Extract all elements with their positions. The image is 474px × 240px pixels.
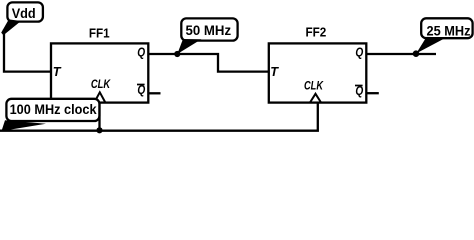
callout 25 MHz bubble <box>421 18 472 38</box>
svg-text:FF1: FF1 <box>89 25 110 40</box>
svg-text:FF2: FF2 <box>306 25 327 40</box>
svg-text:100 MHz clock: 100 MHz clock <box>10 101 97 117</box>
wire FF1 CLK drop to clock line <box>98 103 100 131</box>
callout 50 MHz tail <box>177 39 201 54</box>
svg-text:Q: Q <box>137 45 145 59</box>
svg-text:50 MHz: 50 MHz <box>186 22 232 38</box>
callout 100 MHz clock bubble <box>6 99 99 121</box>
wire 100 MHz clock line with riser to FF2 CLK <box>0 103 318 131</box>
wire FF1 Q-bar stub <box>148 92 160 94</box>
clock edge triangle (FF2) <box>310 94 321 103</box>
wire FF2 Q-bar stub <box>366 92 379 94</box>
wire FF2 Q output <box>366 53 436 55</box>
node clock junction dot at FF1 <box>96 127 102 133</box>
svg-text:Vdd: Vdd <box>12 6 36 21</box>
wire FF1 Q output to FF2 T input <box>148 54 268 72</box>
flip-flop FF1 box <box>51 43 148 102</box>
svg-text:CLK: CLK <box>304 79 324 93</box>
callout 50 MHz bubble <box>181 18 237 40</box>
callout Vdd bubble <box>7 2 43 21</box>
node 25 MHz junction dot <box>413 50 420 57</box>
callout Vdd tail <box>1 19 21 35</box>
svg-text:T: T <box>53 64 62 79</box>
flip-flop FF2 box <box>269 43 367 102</box>
clock edge triangle (FF1) <box>94 92 105 102</box>
svg-text:CLK: CLK <box>91 77 111 91</box>
svg-text:Q: Q <box>355 45 363 59</box>
node 50 MHz junction dot <box>174 51 180 57</box>
wire Vdd to T input of FF1 <box>4 30 51 72</box>
callout 100 MHz clock tail <box>2 120 47 131</box>
svg-text:T: T <box>270 64 279 79</box>
callout 25 MHz tail <box>416 37 446 54</box>
svg-text:25 MHz: 25 MHz <box>427 23 471 39</box>
